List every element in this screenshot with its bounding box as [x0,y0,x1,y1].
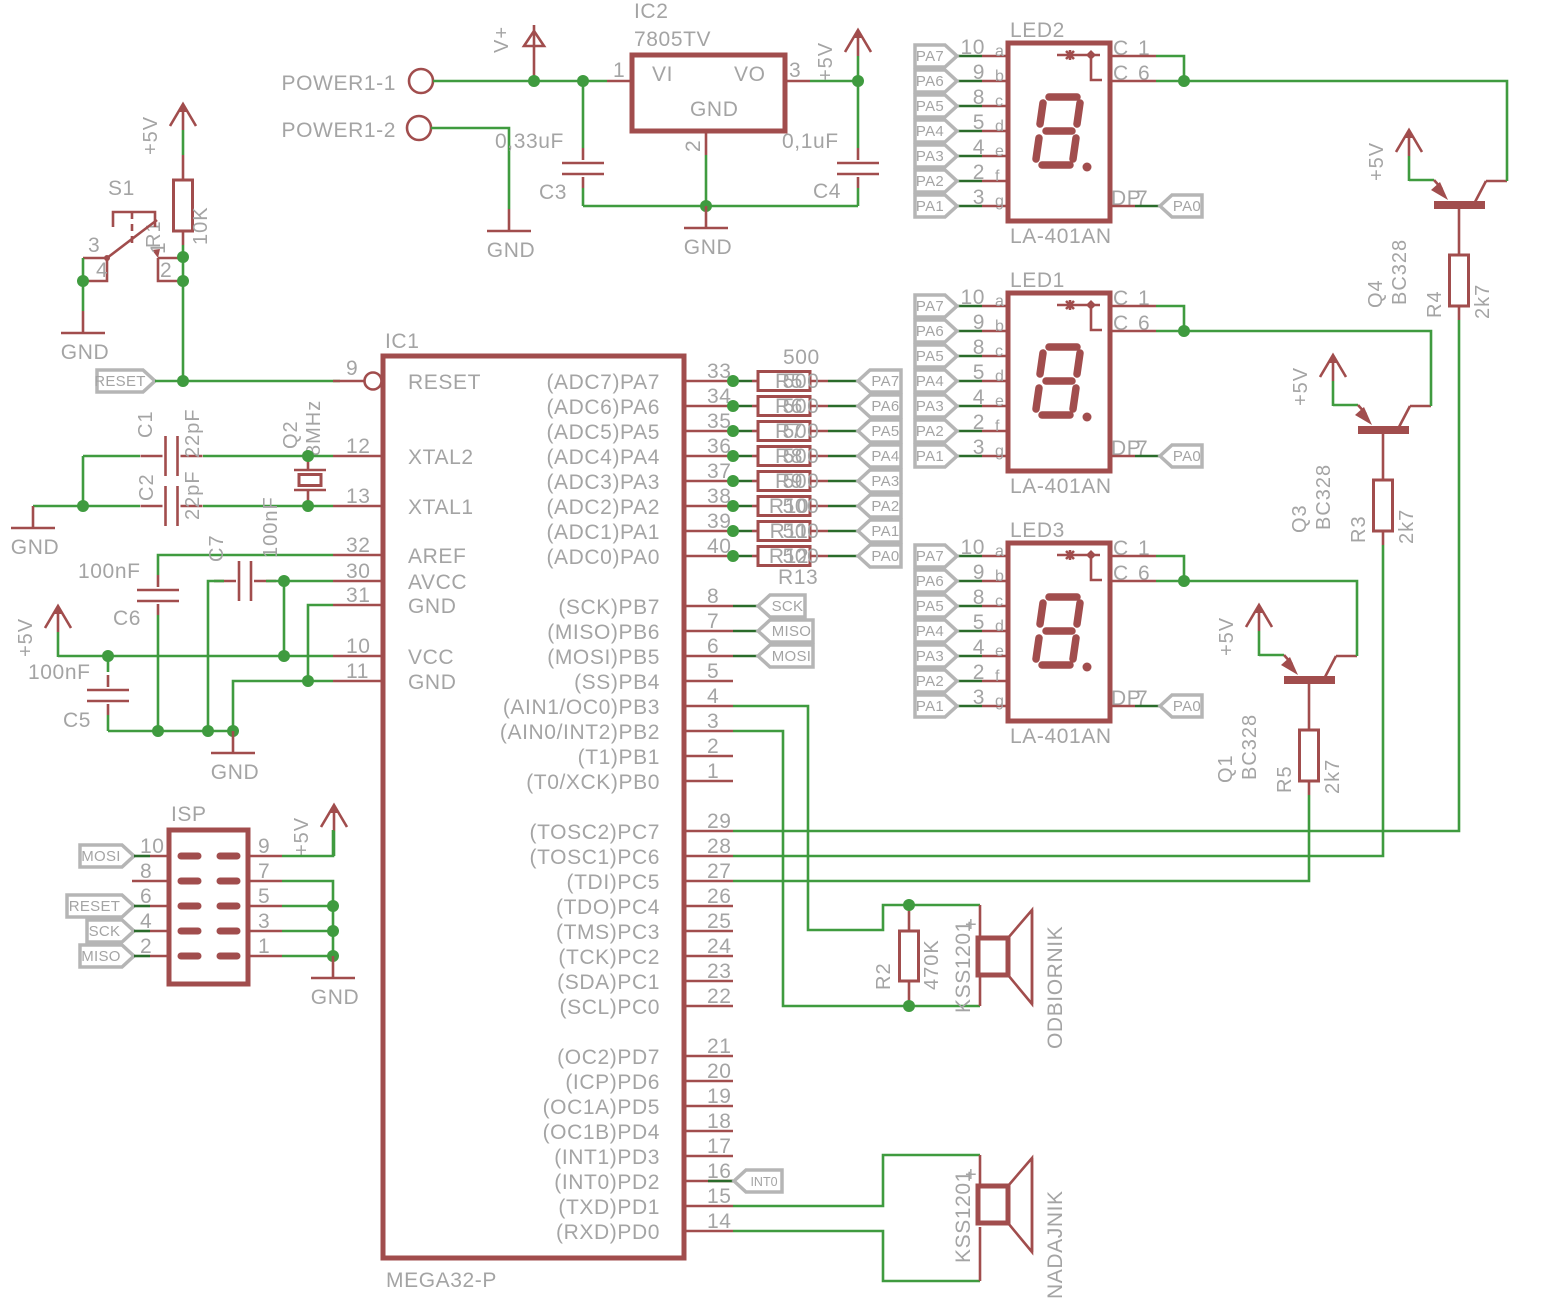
flag RESET (ISP) [67,895,134,917]
svg-text:(TOSC1)PC6: (TOSC1)PC6 [530,846,660,869]
resistor R9 500 [733,480,752,483]
svg-text:C6: C6 [113,607,141,630]
speaker KSS1201 NADAJNIK [979,1155,982,1186]
resistor R7 500 [733,430,752,433]
svg-text:(RXD)PD0: (RXD)PD0 [556,1221,660,1244]
svg-text:IC1: IC1 [385,330,419,353]
transistor Q4 BC328 with resistor R4 [1366,130,1507,320]
svg-text:13: 13 [346,485,371,508]
svg-text:18: 18 [707,1110,732,1133]
wire bottom gnd rail [108,730,233,733]
svg-text:24: 24 [707,935,732,958]
flag SCK [733,605,758,608]
IC1 left pin names [408,371,481,694]
IC1 right pins [684,360,733,1233]
wire PB2 to R2 bottom [733,731,980,1006]
svg-text:+5V: +5V [15,618,37,657]
svg-text:16: 16 [707,1160,732,1183]
speaker KSS1201 ODBIORNIK [979,905,982,938]
flag PA4 [858,445,901,467]
svg-text:C7: C7 [206,534,228,562]
connector pad POWER1-2 [407,116,431,140]
svg-text:26: 26 [707,885,732,908]
svg-text:7: 7 [258,860,270,883]
resistor R11 500 [733,530,752,533]
wire IC2 out to +5V [810,80,858,83]
svg-text:PA1: PA1 [871,523,899,540]
svg-text:VI: VI [652,63,673,86]
wire LED1 C to Q3 collector [1184,331,1431,406]
svg-text:9: 9 [346,357,358,380]
svg-text:(TCK)PC2: (TCK)PC2 [558,946,660,969]
flag MISO (ISP) [80,945,134,967]
svg-text:SCK: SCK [89,923,121,940]
svg-text:+5V: +5V [140,116,162,155]
ground below POWER1-2 [508,209,511,231]
svg-text:LED1: LED1 [1010,269,1065,292]
svg-text:11: 11 [346,660,369,683]
svg-text:(TDI)PC5: (TDI)PC5 [567,871,660,894]
svg-text:C1: C1 [135,410,157,438]
svg-text:GND: GND [684,236,732,259]
svg-text:1: 1 [613,59,625,82]
svg-text:VCC: VCC [408,646,454,669]
svg-text:19: 19 [707,1085,732,1108]
svg-text:R9: R9 [775,470,803,493]
svg-text:4: 4 [96,259,108,282]
capacitor C6 100nF [137,589,179,592]
wire GND31 down [308,605,333,681]
svg-text:GND: GND [408,595,456,618]
flag MOSI [733,655,758,658]
+5V above R1 [170,104,196,126]
svg-text:28: 28 [707,835,732,858]
transistor Q1 BC328 with resistor R5 [1216,605,1357,795]
svg-text:(OC1B)PD4: (OC1B)PD4 [543,1121,660,1144]
resistor R5 500 [733,380,752,383]
flag PA0 [858,545,901,567]
svg-text:+: + [965,914,978,936]
svg-text:29: 29 [707,810,732,833]
supply symbol V+ [524,31,544,46]
svg-text:ISP: ISP [171,803,207,826]
wire POWER1-1 to IC2 VI [433,80,607,83]
flag MOSI (ISP) [80,845,134,867]
svg-text:30: 30 [346,560,371,583]
svg-text:(TDO)PC4: (TDO)PC4 [556,896,660,919]
svg-text:(MISO)PB6: (MISO)PB6 [547,621,660,644]
svg-text:27: 27 [707,860,732,883]
flag PA5 [858,420,901,442]
svg-text:6: 6 [707,635,719,658]
wire LED2 C to Q4 collector [1184,81,1507,181]
connector pad POWER1-1 [409,69,433,93]
wire ISP pin9 [282,855,333,856]
ISP right pins [248,835,282,958]
svg-text:100nF: 100nF [28,661,91,684]
svg-text:22pF: 22pF [182,470,204,520]
svg-text:22pF: 22pF [182,408,204,458]
wire C3-C4 ground rail [583,205,858,208]
svg-text:25: 25 [707,910,732,933]
svg-text:R3: R3 [1348,515,1370,543]
svg-text:(TMS)PC3: (TMS)PC3 [556,921,660,944]
junction C3 top [577,75,589,87]
svg-text:PA5: PA5 [871,423,899,440]
junction R2 bottom [903,1000,915,1012]
IC2 pin 3 [785,80,810,83]
svg-text:R5: R5 [775,370,803,393]
svg-text:+: + [965,1164,978,1186]
svg-text:14: 14 [707,1210,732,1233]
svg-text:R6: R6 [775,395,803,418]
svg-text:1: 1 [147,242,170,254]
svg-text:15: 15 [707,1185,732,1208]
svg-text:MOSI: MOSI [81,848,121,865]
svg-text:RESET: RESET [408,371,481,394]
svg-text:2: 2 [140,935,152,958]
junction R1/S1 pin1 [177,251,189,263]
wire XTAL2 net [83,455,140,458]
svg-text:RESET: RESET [69,898,121,915]
wire GND11 [233,681,333,731]
S1 lever [107,220,157,258]
svg-text:500: 500 [783,346,820,369]
junction V+ [528,75,540,87]
wire RESET to IC1 [155,380,340,383]
LED display LED1 LA-401AN [915,286,1202,498]
flag PA7 [858,370,901,392]
crystal Q2 8MHz [294,469,326,472]
svg-text:PA6: PA6 [871,398,899,415]
svg-text:PA2: PA2 [871,498,899,515]
wire Q4 base to PC7 [733,320,1459,831]
svg-text:(MOSI)PB5: (MOSI)PB5 [547,646,660,669]
svg-text:100nF: 100nF [78,560,141,583]
LED display LED2 LA-401AN [915,36,1202,248]
flag SCK (ISP) [87,920,134,942]
svg-text:3: 3 [88,234,100,257]
svg-text:NADAJNIK: NADAJNIK [1044,1190,1067,1299]
svg-text:+5V: +5V [815,42,837,81]
svg-text:XTAL1: XTAL1 [408,496,474,519]
svg-text:PA4: PA4 [871,448,899,465]
svg-text:AREF: AREF [408,545,466,568]
ISP left pins [132,835,169,958]
svg-text:100nF: 100nF [260,496,282,558]
svg-text:LED2: LED2 [1010,19,1065,42]
svg-text:(ADC3)PA3: (ADC3)PA3 [546,471,660,494]
svg-text:POWER1-1: POWER1-1 [282,72,397,95]
ISP pads [181,856,237,956]
svg-text:(ADC0)PA0: (ADC0)PA0 [546,546,660,569]
svg-text:C4: C4 [813,180,841,203]
wire POWER1-2 to GND [431,128,509,209]
svg-text:R11: R11 [770,520,809,543]
capacitor C7 100nF [238,561,241,601]
voltage regulator IC2 7805TV [632,55,785,131]
capacitor C5 100nF [107,656,110,672]
flag RESET [97,370,155,392]
svg-text:(TXD)PD1: (TXD)PD1 [558,1196,660,1219]
ground below IC2 [705,206,708,228]
svg-text:Q1: Q1 [1215,754,1237,783]
svg-text:(ADC6)PA6: (ADC6)PA6 [546,396,660,419]
junction S1 pin2 [177,275,189,287]
svg-text:22: 22 [707,985,732,1008]
svg-text:INT0: INT0 [750,1175,777,1189]
wire Q3 base to PC6 [733,545,1383,856]
wire PB3 to R2 top [733,706,980,930]
svg-text:(SCL)PC0: (SCL)PC0 [560,996,661,1019]
svg-text:MISO: MISO [772,623,812,640]
svg-text:SCK: SCK [772,598,804,615]
flag PA6 [858,395,901,417]
ground below C1/C2 [32,506,35,528]
+5V arrow left [45,606,71,628]
resistor R12 500 [733,555,752,558]
svg-text:7: 7 [707,610,719,633]
+5V at ISP pin9 [321,805,347,827]
svg-text:(TOSC2)PC7: (TOSC2)PC7 [530,821,660,844]
wire RESET net down [182,257,185,281]
svg-text:9: 9 [258,835,270,858]
svg-text:C3: C3 [539,181,567,204]
svg-text:(ADC1)PA1: (ADC1)PA1 [546,521,660,544]
svg-text:(AIN0/INT2)PB2: (AIN0/INT2)PB2 [500,721,660,744]
svg-text:R4: R4 [1424,290,1446,318]
flag MISO [733,630,758,633]
wire PD1 to speaker [733,1155,980,1206]
junction RESET [177,375,189,387]
svg-text:(T1)PB1: (T1)PB1 [578,746,660,769]
svg-text:2: 2 [160,259,172,282]
svg-text:MOSI: MOSI [772,648,812,665]
svg-text:LED3: LED3 [1010,519,1065,542]
svg-text:(T0/XCK)PB0: (T0/XCK)PB0 [526,771,660,794]
svg-text:(ADC5)PA5: (ADC5)PA5 [546,421,660,444]
svg-text:23: 23 [707,960,732,983]
junction R2 top [903,899,915,911]
svg-text:(ADC2)PA2: (ADC2)PA2 [546,496,660,519]
capacitor C1 22pF [164,436,167,476]
wire AVCC net [214,580,224,583]
svg-text:(ADC7)PA7: (ADC7)PA7 [546,371,660,394]
junction GND rail [700,200,712,212]
svg-text:PA0: PA0 [871,548,899,565]
svg-text:21: 21 [707,1035,732,1058]
svg-text:(ICP)PD6: (ICP)PD6 [565,1071,660,1094]
ground below caps [232,731,235,753]
wire +5V rail to VCC [58,655,333,658]
transistor Q3 BC328 with resistor R3 [1290,355,1431,545]
wire S1 left to GND [82,258,85,281]
svg-text:8: 8 [140,860,152,883]
svg-text:(OC2)PD7: (OC2)PD7 [557,1046,660,1069]
svg-text:5: 5 [707,660,719,683]
svg-text:AVCC: AVCC [408,571,467,594]
svg-text:3: 3 [707,710,719,733]
svg-text:MISO: MISO [81,948,121,965]
IC2 pin2 wire [705,155,708,206]
wire Q1 base to PC5 [733,795,1309,881]
svg-text:XTAL2: XTAL2 [408,446,474,469]
svg-text:4: 4 [707,685,719,708]
svg-text:GND: GND [408,671,456,694]
svg-text:V+: V+ [491,26,513,53]
IC2 pin 2 [705,131,708,155]
svg-text:31: 31 [346,584,371,607]
svg-text:0,33uF: 0,33uF [495,130,564,153]
svg-text:7805TV: 7805TV [634,28,711,51]
svg-text:1: 1 [258,935,270,958]
capacitor C4 0.1uF [857,81,860,148]
wire ISP gnd pins [282,881,333,956]
svg-text:-: - [963,975,971,997]
svg-text:3: 3 [789,59,801,82]
svg-text:POWER1-2: POWER1-2 [282,119,397,142]
svg-text:4: 4 [140,910,152,933]
svg-text:-: - [963,1225,971,1247]
svg-text:PA7: PA7 [871,373,899,390]
wire AREF to C6 [158,555,333,575]
flag INT0 [708,1180,734,1183]
+5V arrow at IC2 output [845,30,871,52]
svg-text:Q4: Q4 [1365,279,1387,308]
svg-text:(OC1A)PD5: (OC1A)PD5 [543,1096,660,1119]
wire LED3 C to Q1 collector [1184,581,1357,656]
flag PA3 [858,470,901,492]
svg-text:R8: R8 [775,445,803,468]
svg-text:0,1uF: 0,1uF [782,130,839,153]
IC2 pin 1 [607,80,632,83]
svg-text:(INT0)PD2: (INT0)PD2 [554,1171,660,1194]
svg-text:R7: R7 [775,420,803,443]
wire XTAL1 net [82,456,85,506]
svg-text:GND: GND [211,761,259,784]
svg-text:(SS)PB4: (SS)PB4 [574,671,660,694]
capacitor C2 22pF [164,486,167,526]
svg-text:2: 2 [707,735,719,758]
svg-text:1: 1 [707,760,719,783]
wire PD0 to speaker [733,1231,980,1281]
svg-text:GND: GND [690,98,738,121]
svg-text:MEGA32-P: MEGA32-P [386,1269,497,1292]
svg-text:6: 6 [140,885,152,908]
svg-text:C2: C2 [136,473,158,501]
IC1 left pins [333,435,383,683]
junction +5V/C4 [852,75,864,87]
svg-text:(SDA)PC1: (SDA)PC1 [557,971,660,994]
resistor R8 500 [733,455,752,458]
svg-text:8: 8 [707,585,719,608]
svg-text:S1: S1 [108,177,135,200]
flag PA2 [858,495,901,517]
svg-text:(ADC4)PA4: (ADC4)PA4 [546,446,660,469]
svg-text:RESET: RESET [94,373,146,390]
ground below ISP [332,956,335,978]
svg-text:8MHz: 8MHz [303,400,325,456]
svg-text:GND: GND [11,536,59,559]
svg-text:10: 10 [140,835,165,858]
wire C7 to gnd rail [208,581,214,731]
svg-text:R10: R10 [769,495,809,518]
svg-text:2: 2 [682,140,705,152]
svg-text:GND: GND [311,986,359,1009]
svg-text:C5: C5 [63,709,91,732]
svg-text:GND: GND [61,341,109,364]
svg-text:R2: R2 [873,962,895,990]
IC1 right pin names [500,371,660,1244]
svg-text:10K: 10K [190,206,212,245]
flag PA1 [858,520,901,542]
connector ISP [169,830,248,984]
svg-text:(SCK)PB7: (SCK)PB7 [558,596,660,619]
svg-text:10: 10 [346,635,371,658]
svg-text:20: 20 [707,1060,732,1083]
svg-text:VO: VO [734,63,766,86]
svg-text:R13: R13 [778,566,818,589]
resistor R10 500 [733,505,752,508]
svg-text:+5V: +5V [291,817,313,856]
svg-text:32: 32 [346,534,371,557]
LED display LED3 LA-401AN [915,536,1202,748]
svg-text:IC2: IC2 [634,0,668,23]
capacitor C3 0.33uF [582,81,585,148]
svg-text:GND: GND [487,239,535,262]
svg-text:470K: 470K [921,939,943,990]
S1 contacts and pins [152,249,160,258]
microcontroller IC1 MEGA32-P [383,356,684,1258]
svg-text:12: 12 [346,435,371,458]
svg-text:Q2: Q2 [280,420,302,449]
svg-text:Q3: Q3 [1289,504,1311,533]
svg-text:R12: R12 [769,545,809,568]
resistor R1 10K [174,180,193,231]
svg-text:R5: R5 [1274,765,1296,793]
svg-text:(INT1)PD3: (INT1)PD3 [554,1146,660,1169]
svg-text:PA3: PA3 [871,473,899,490]
svg-text:3: 3 [258,910,270,933]
resistor R2 470K [908,905,911,931]
resistor R6 500 [733,405,752,408]
svg-text:17: 17 [707,1135,732,1158]
svg-text:(AIN1/OC0)PB3: (AIN1/OC0)PB3 [503,696,660,719]
svg-text:5: 5 [258,885,270,908]
svg-text:ODBIORNIK: ODBIORNIK [1044,926,1067,1049]
IC1 RESET pin 9 [333,380,364,383]
